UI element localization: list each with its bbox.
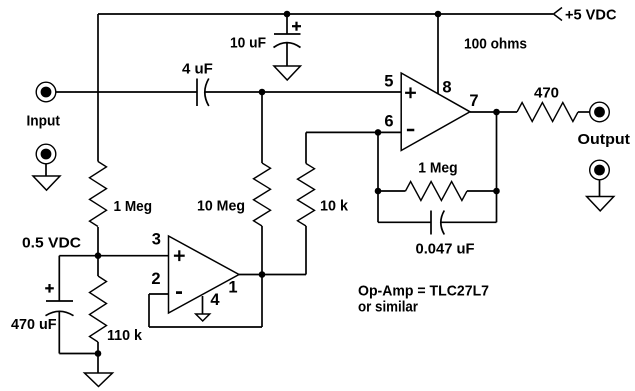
svg-text:8: 8 — [442, 79, 451, 97]
svg-text:6: 6 — [384, 112, 393, 130]
wire to 0.047 uF left — [378, 221, 431, 223]
ground below 110 k node — [85, 373, 113, 387]
svg-text:0.047 uF: 0.047 uF — [416, 241, 475, 258]
wire 10 uF to ground — [286, 43, 288, 66]
svg-text:4 uF: 4 uF — [182, 61, 213, 78]
plus sign of 10 uF — [292, 22, 301, 31]
wire U2 pin 4 ground stem — [202, 296, 204, 314]
node junction U1 output — [493, 109, 500, 116]
svg-text:Op-Amp = TLC27L7: Op-Amp = TLC27L7 — [358, 283, 489, 300]
op-amp U1 (pins 5,6,7,8) — [401, 73, 470, 151]
svg-text:2: 2 — [151, 270, 160, 288]
wire to 1 Meg feedback left — [378, 190, 406, 192]
op-amp U1 inverting - sign — [407, 129, 414, 132]
svg-text:Input: Input — [27, 113, 61, 130]
capacitor 4 uF — [197, 79, 209, 107]
svg-text:5: 5 — [384, 73, 393, 91]
wire Input terminal to 4 uF — [56, 91, 197, 93]
resistor 110 k (bias lower) — [90, 276, 107, 342]
wire 0.5 VDC node to U2 pin 3 — [59, 255, 168, 257]
node junction top rail / pin 8 — [435, 11, 442, 18]
svg-text:1 Meg: 1 Meg — [418, 160, 457, 177]
svg-text:470: 470 — [534, 85, 559, 102]
capacitor 470 uF — [46, 301, 74, 316]
wire top rail to U1 pin 8 — [437, 14, 439, 94]
op-amp U1 noninverting + sign — [405, 87, 416, 98]
wire node to 10 Meg top — [261, 92, 263, 163]
wire 470 uF to ground node — [59, 353, 98, 355]
wire 10 k bottom — [305, 226, 307, 275]
svg-text:110 k: 110 k — [107, 327, 143, 344]
wire input ground stem — [45, 164, 47, 176]
wire 470 to Output terminal — [578, 111, 590, 113]
wire 0.047 uF right — [441, 221, 497, 223]
wire U2 output to 10 k bottom — [239, 274, 306, 276]
capacitor 0.047 uF — [431, 211, 444, 235]
resistor 470 (output) — [517, 103, 578, 122]
resistor 1 Meg (bias upper) — [90, 162, 107, 227]
node junction top rail / 10 uF — [284, 11, 291, 18]
svg-text:10 k: 10 k — [320, 198, 349, 215]
wire bias divider from +5V rail down to 1 Meg — [97, 14, 99, 162]
Output terminal — [590, 102, 610, 122]
wire U1 pin 6 — [306, 131, 401, 133]
node ground junction 470 uF / 110 k — [95, 350, 102, 357]
wire +5V top rail — [98, 13, 553, 15]
Input terminal — [36, 82, 56, 102]
svg-text:3: 3 — [152, 230, 161, 248]
svg-text:10 uF: 10 uF — [230, 35, 266, 52]
wire U2 feedback left vertical — [148, 294, 150, 327]
svg-text:470 uF: 470 uF — [11, 316, 57, 333]
svg-text:1 Meg: 1 Meg — [114, 198, 153, 215]
svg-text:1: 1 — [228, 278, 237, 296]
+5 VDC supply connector chevron — [554, 8, 563, 21]
capacitor 10 uF — [274, 34, 301, 48]
wire 0.5 VDC node to 110 k top — [97, 256, 99, 276]
ground below 10 uF — [274, 66, 301, 80]
resistor 10 Meg — [254, 163, 271, 226]
node junction pin 6 / feedback — [375, 129, 382, 136]
wire 1 Meg bottom to 0.5 VDC node — [97, 227, 99, 256]
wire feedback right vertical — [496, 112, 498, 222]
node junction feedback right / 1 Meg — [493, 188, 500, 195]
node junction input line / 10 Meg — [259, 89, 266, 96]
wire output ground stem — [599, 180, 601, 197]
node junction feedback left / 1 Meg — [375, 188, 382, 195]
op-amp U2 inverting - sign — [176, 291, 182, 294]
svg-text:+5 VDC: +5 VDC — [565, 7, 617, 24]
svg-text:0.5 VDC: 0.5 VDC — [22, 235, 81, 252]
svg-text:4: 4 — [210, 291, 220, 309]
input ground terminal — [36, 144, 56, 164]
svg-text:7: 7 — [469, 92, 478, 110]
wire U2 pin 2 stub — [149, 293, 169, 295]
wire feedback left vertical — [377, 132, 379, 222]
plus sign of 470 uF — [45, 284, 54, 293]
wire 4 uF to U1 pin 5 — [205, 91, 402, 93]
resistor 1 Meg (feedback) — [406, 182, 468, 201]
op-amp U2 (pins 1,2,3,4) — [169, 236, 240, 313]
wire 470 uF bottom — [58, 311, 60, 353]
output ground terminal — [590, 160, 610, 180]
wire U2 feedback bottom — [149, 326, 262, 328]
wire pin6 line to 10 k top — [305, 132, 307, 163]
node junction U2 output — [259, 271, 266, 278]
wire 10 Meg bottom to U2 output node — [261, 226, 263, 275]
op-amp U2 noninverting + sign — [174, 250, 185, 261]
ground at U2 pin 4 — [196, 314, 210, 321]
wire ground node stem — [97, 354, 99, 374]
wire U1 pin 7 output — [470, 111, 517, 113]
node 0.5 VDC junction — [95, 252, 102, 259]
wire 1 Meg feedback right — [467, 190, 497, 192]
ground below Input terminal — [33, 176, 60, 190]
wire down to 470 uF plus plate — [58, 256, 60, 301]
svg-text:100 ohms: 100 ohms — [464, 36, 527, 53]
svg-text:10 Meg: 10 Meg — [197, 198, 245, 215]
ground below Output terminal — [587, 197, 614, 211]
svg-text:Output: Output — [578, 131, 631, 148]
wire U2 feedback up to output node — [261, 275, 263, 328]
wire top rail to 10 uF plus plate — [286, 14, 288, 34]
resistor 10 k — [298, 164, 315, 227]
wire 110 k bottom — [97, 342, 99, 354]
svg-text:or similar: or similar — [358, 299, 418, 316]
